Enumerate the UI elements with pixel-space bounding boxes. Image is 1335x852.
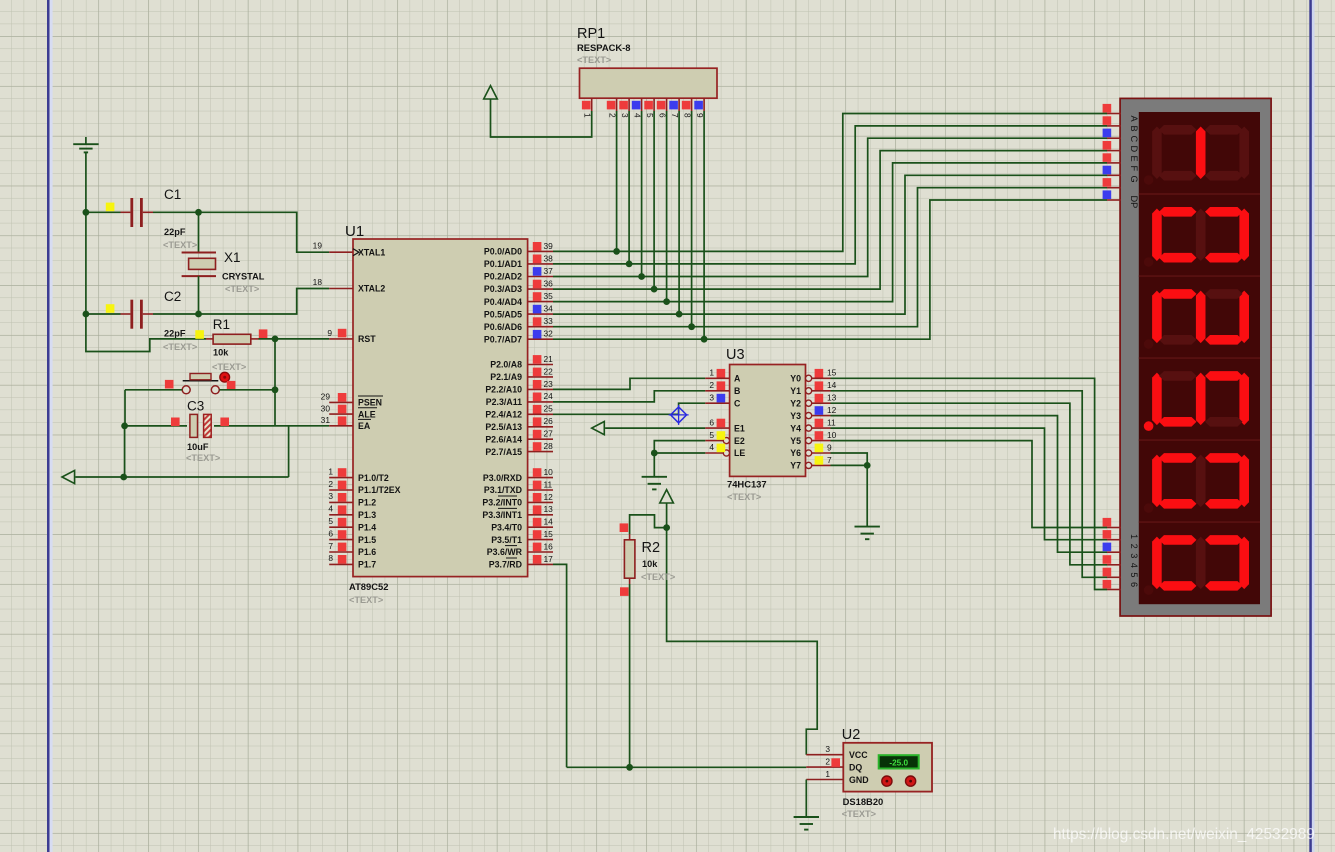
svg-text:2: 2 [328,479,333,489]
svg-text:10k: 10k [213,348,229,358]
svg-text:1: 1 [825,769,830,779]
wire ground to C1 rail [85,152,87,212]
U1 right pin P3.7/RD (pin 17) [528,563,553,565]
svg-text:33: 33 [544,316,554,326]
wire net Y0 to display digit 6 [831,378,1108,589]
svg-text:CRYSTAL: CRYSTAL [222,272,265,282]
svg-text:8: 8 [328,553,333,563]
wire reset button column [274,339,276,426]
U2 indicator lamp 1 [882,776,892,786]
svg-text:P3.2/INT0: P3.2/INT0 [482,498,522,508]
svg-text:Y1: Y1 [790,386,801,396]
U1 right pin P3.0/RXD (pin 10) [528,477,553,479]
U1 left pin P1.4 (pin 5) [329,526,353,528]
indicator square R2 top red [620,523,629,532]
svg-text:Y5: Y5 [790,436,801,446]
U2 pin DQ (2) [806,766,843,768]
svg-text:P1.6: P1.6 [358,547,376,557]
svg-text:10k: 10k [642,559,658,569]
wire net P0.6 / segment G [553,188,1107,327]
svg-text:36: 36 [544,278,554,288]
indicator square C2 yellow [106,304,115,313]
svg-text:P2.6/A14: P2.6/A14 [485,434,522,444]
wire left rail C1-C2 [85,212,87,314]
U1 left pin P1.2 (pin 3) [329,501,353,503]
U1 right pin P3.5/T1 (pin 15) [528,539,553,541]
svg-text:P2.0/A8: P2.0/A8 [490,360,522,370]
wire R2 top jog [630,515,667,534]
U1 right pin P0.3/AD3 (pin 36) [528,288,553,290]
svg-text:14: 14 [827,380,837,390]
node button-right [272,386,279,393]
U1 right pin P2.5/A13 (pin 26) [528,426,553,428]
U1 right pin P2.0/A8 (pin 21) [528,364,553,366]
wire ground rail [75,476,288,478]
svg-text:7: 7 [827,455,832,465]
svg-text:32: 32 [544,329,554,339]
svg-text:R2: R2 [642,540,661,556]
power terminal (RP1 common) [484,86,498,99]
svg-text:4: 4 [709,442,714,452]
indicator square R1 left yellow [195,330,204,339]
svg-text:6: 6 [709,417,714,427]
capacitor C2 [121,313,131,315]
display segment pin B [1107,125,1121,127]
svg-text:15: 15 [827,368,837,378]
indicator square C3 right red [220,418,229,427]
svg-text:<TEXT>: <TEXT> [349,595,383,605]
svg-text:A: A [1129,116,1139,123]
svg-text:P3.5/T1: P3.5/T1 [491,535,522,545]
wire RP1 pin 8 to P0.6 net [691,111,693,327]
svg-text:9: 9 [827,442,832,452]
wire C3 row [125,425,187,427]
display DS1 face [1139,112,1260,604]
display segment pin D [1107,150,1121,152]
wire C2 row [86,313,121,315]
U1 left pin P1.5 (pin 6) [329,539,353,541]
svg-text:P0.0/AD0: P0.0/AD0 [484,247,522,257]
U3 right pin Y6 (pin 9) [806,450,812,456]
U3 right pin Y3 (pin 12) [806,413,812,419]
wire crystal bottom [198,276,200,314]
U1 right pin P3.4/T0 (pin 14) [528,526,553,528]
resistor R2 [629,534,631,540]
svg-text:2: 2 [825,756,830,766]
node marker diamond (P2.4 net) [669,405,689,425]
wire net P0.4 / segment E [553,163,1107,302]
svg-text:DQ: DQ [849,762,862,772]
svg-text:P3.0/RXD: P3.0/RXD [483,473,522,483]
wire down to ground [866,465,868,526]
svg-text:C2: C2 [164,289,181,304]
node X1-top [195,209,202,216]
svg-text:4: 4 [1129,563,1139,568]
svg-text:<TEXT>: <TEXT> [225,284,259,294]
wire net P0.7 / segment DP [553,200,1107,339]
ground (U3 enables) [642,476,667,478]
svg-text:GND: GND [849,775,869,785]
display digit cell 3 (2) [1139,276,1260,349]
svg-text:F: F [1129,166,1139,172]
U3 left pin E2 (pin 5) [705,440,723,442]
display segment pin G [1107,187,1121,189]
wire button left [125,389,182,391]
node C1-left [83,209,90,216]
svg-text:RP1: RP1 [577,26,605,42]
display digit select pin 6 [1107,589,1121,591]
wire net P0.1 / segment B [553,126,1107,264]
U1 right pin P3.1/TXD (pin 11) [528,489,553,491]
svg-text:<TEXT>: <TEXT> [163,342,197,352]
U1 right pin P0.2/AD2 (pin 37) [528,276,553,278]
svg-text:74HC137: 74HC137 [727,479,767,490]
svg-text:P3.3/INT1: P3.3/INT1 [482,510,522,520]
U1 left pin EA [329,425,353,427]
indicator square button-right red [227,381,236,390]
svg-text:22pF: 22pF [164,227,186,237]
display digit select pin 2 [1107,539,1121,541]
svg-text:15: 15 [544,529,554,539]
node RST-R1 [272,336,279,343]
RP1 pin 9 [703,98,705,111]
node X1-bottom [195,311,202,318]
svg-text:EA: EA [358,421,371,431]
svg-text:P2.7/A15: P2.7/A15 [485,447,522,457]
svg-text:P2.4/A12: P2.4/A12 [485,410,522,420]
svg-text:C: C [1129,136,1139,143]
wire net Y3 to display digit 3 [831,416,1108,553]
svg-text:10: 10 [544,467,554,477]
display DS1 bezel [1120,98,1271,616]
wire to U3 ground [653,453,655,476]
ground (Y6/Y7) [855,526,880,528]
svg-text:-25.0: -25.0 [889,758,908,767]
svg-text:1: 1 [1129,534,1139,539]
wire DQ row [567,766,807,768]
ground (U2) [794,816,819,818]
wire P2.2 to U3 A [553,378,705,389]
wire R1 to RST [259,338,330,340]
node C2-left [83,311,90,318]
wire Y6 to ground net [831,453,868,465]
svg-text:22: 22 [544,366,554,376]
resistor pack RP1 body [580,68,718,98]
crystal X1 [182,252,216,254]
svg-text:P1.0/T2: P1.0/T2 [358,473,389,483]
node Y6-Y7 [864,462,871,469]
U1 left pin ALE [329,413,353,415]
U1 right pin P2.3/A11 (pin 24) [528,401,553,403]
svg-text:P2.1/A9: P2.1/A9 [490,372,522,382]
svg-text:U1: U1 [345,223,364,240]
svg-text:P0.7/AD7: P0.7/AD7 [484,334,522,344]
svg-text:5: 5 [709,430,714,440]
svg-text:37: 37 [544,266,554,276]
svg-text:LE: LE [734,448,745,458]
svg-text:11: 11 [827,418,836,428]
wire button right [219,389,275,391]
svg-text:E1: E1 [734,423,745,433]
wire RP1 pin 3 to P0.1 net [628,111,630,264]
svg-text:12: 12 [827,405,837,415]
svg-text:1: 1 [328,466,333,476]
svg-text:3: 3 [328,491,333,501]
U3 right pin Y4 (pin 11) [806,425,812,431]
svg-text:18: 18 [313,277,323,287]
svg-text:Y2: Y2 [790,398,801,408]
wire P3.7/RD to DQ net [553,564,567,767]
U2 pin VCC (3) [806,754,843,756]
svg-text:DP: DP [1129,196,1139,209]
node ground-rail [120,474,127,481]
svg-text:RESPACK-8: RESPACK-8 [577,42,630,53]
svg-text:39: 39 [544,241,554,251]
svg-text:24: 24 [544,391,554,401]
capacitor C1 [121,211,131,213]
ground terminal arrow (left) [62,470,75,483]
svg-text:Y6: Y6 [790,448,801,458]
svg-text:22pF: 22pF [164,329,186,339]
svg-text:23: 23 [544,379,554,389]
node DQ junction [626,764,633,771]
U3 left pin LE (pin 4) [705,452,723,454]
U3 left pin C (pin 3) [705,402,729,404]
svg-text:X1: X1 [224,250,241,265]
U1 left pin P1.6 (pin 7) [329,551,353,553]
wire C3-left column down [124,426,126,477]
U1 right pin P3.6/WR (pin 16) [528,551,553,553]
U2 LCD readout -25.0 [879,755,919,768]
U1 left pin RST [329,338,353,340]
wire RP1 pin 6 to P0.4 net [666,111,668,302]
ic U2 DS18B20 body [843,743,932,792]
svg-text:ALE: ALE [358,409,376,419]
svg-text:9: 9 [327,328,332,338]
svg-text:XTAL2: XTAL2 [358,284,385,294]
RP1 pin 5 [653,98,655,111]
U3 right pin Y7 (pin 7) [806,462,812,468]
display digit cell 2 (0) [1139,194,1260,267]
indicator square C3 left red [171,418,180,427]
svg-text:Y7: Y7 [790,461,801,471]
U1 pin name overlines INT0 INT1 WR RD [498,495,517,497]
svg-text:DS18B20: DS18B20 [843,796,884,807]
wire RP1 pin 7 to P0.5 net [678,111,680,314]
svg-text:13: 13 [544,504,554,514]
svg-text:<TEXT>: <TEXT> [163,240,197,250]
U3 left pin A (pin 1) [705,377,729,379]
svg-text:AT89C52: AT89C52 [349,581,388,592]
svg-text:P0.2/AD2: P0.2/AD2 [484,272,522,282]
wire net P0.5 / segment F [553,175,1107,314]
svg-text:U3: U3 [726,347,745,363]
svg-text:P3.7/RD: P3.7/RD [489,560,522,570]
wire left rail to R1 [86,314,206,352]
svg-text:<TEXT>: <TEXT> [212,362,246,372]
svg-text:21: 21 [544,354,554,364]
wire P2.3 to U3 B [553,391,705,402]
svg-text:31: 31 [321,415,331,425]
svg-text:19: 19 [313,241,323,251]
svg-text:13: 13 [827,393,837,403]
U1 left pin XTAL1 [329,251,353,253]
svg-text:<TEXT>: <TEXT> [842,809,876,819]
display segment pin C [1107,137,1121,139]
U1 left pin P1.1/T2EX (pin 2) [329,489,353,491]
svg-text:<TEXT>: <TEXT> [727,492,761,502]
svg-text:P0.4/AD4: P0.4/AD4 [484,297,522,307]
svg-text:P1.7: P1.7 [358,560,376,570]
U1 right pin P0.4/AD4 (pin 35) [528,301,553,303]
display digit cell 6 (0) [1139,522,1260,595]
svg-text:27: 27 [544,429,554,439]
svg-text:5: 5 [328,516,333,526]
push button [183,380,219,382]
svg-text:PSEN: PSEN [358,398,382,408]
wire C1 row [86,211,121,213]
svg-text:P1.4: P1.4 [358,522,376,532]
svg-text:3: 3 [709,392,714,402]
svg-text:P1.2: P1.2 [358,498,376,508]
svg-text:P3.6/WR: P3.6/WR [487,547,523,557]
U1 left pin XTAL2 [329,288,353,290]
svg-text:P0.3/AD3: P0.3/AD3 [484,284,522,294]
U3 left pin B (pin 2) [705,390,729,392]
display digit select pin 3 [1107,551,1121,553]
svg-text:35: 35 [544,291,554,301]
svg-text:U2: U2 [842,727,861,743]
U2 indicator lamp 2 [906,776,916,786]
U1 right pin P2.1/A9 (pin 22) [528,376,553,378]
svg-text:<TEXT>: <TEXT> [186,453,220,463]
svg-text:P1.3: P1.3 [358,510,376,520]
wire RP1 pin 4 to P0.2 net [641,111,643,277]
svg-text:11: 11 [544,479,553,489]
svg-text:17: 17 [544,554,554,564]
wire net Y4 to display digit 2 [831,428,1108,540]
svg-text:5: 5 [1129,572,1139,577]
svg-text:1: 1 [709,368,714,378]
svg-text:25: 25 [544,404,554,414]
indicator square R1 right red [259,329,268,338]
wire U2 GND to ground [805,780,807,817]
U1 right pin P2.6/A14 (pin 27) [528,438,553,440]
wire C2 row to XTAL2 corner [199,289,330,315]
U1 left pin PSEN [329,401,353,403]
svg-text:B: B [734,386,740,396]
wire RP1 pin1 to power [491,99,592,137]
wire Y7 to ground net [831,464,868,466]
svg-text:B: B [1129,126,1139,132]
svg-text:C3: C3 [187,399,204,414]
svg-text:P1.1/T2EX: P1.1/T2EX [358,485,401,495]
display digit select pin 5 [1107,576,1121,578]
svg-text:2: 2 [1129,544,1139,549]
display digit cell 4 (5.) [1139,358,1260,431]
svg-text:<TEXT>: <TEXT> [577,55,611,65]
svg-text:3: 3 [825,744,830,754]
indicator square R2 bottom red [620,587,629,596]
wire crystal top [198,212,200,252]
U1 left pin P1.3 (pin 4) [329,514,353,516]
ic U3 74HC137 body [730,365,806,477]
U1 left pin P1.7 (pin 8) [329,563,353,565]
svg-text:14: 14 [544,517,554,527]
wire VCC net to U2 VCC [667,503,818,755]
svg-text:A: A [734,374,741,384]
svg-text:VCC: VCC [849,750,868,760]
svg-text:P0.1/AD1: P0.1/AD1 [484,259,522,269]
wire EA column down [288,426,290,477]
wire RP1 pin 5 to P0.3 net [653,111,655,289]
wire RP1 pin 2 to P0.0 net [616,111,618,251]
node E2-LE [651,450,658,457]
svg-text:R1: R1 [213,317,230,332]
svg-text:C1: C1 [164,187,181,202]
ic U1 AT89C52 body [353,239,528,577]
U2 pin GND (1) [806,779,843,781]
U1 left pin P1.0/T2 (pin 1) [329,477,353,479]
indicator square button-left red [165,380,174,389]
indicator square C1 yellow [106,203,115,212]
svg-text:https://blog.csdn.net/weixin_4: https://blog.csdn.net/weixin_42532989 [1053,826,1315,843]
svg-text:P0.5/AD5: P0.5/AD5 [484,309,522,319]
svg-text:2: 2 [709,380,714,390]
U1 right pin P0.1/AD1 (pin 38) [528,263,553,265]
wire net P0.0 / segment A [553,114,1107,252]
U3 right pin Y1 (pin 14) [806,388,812,394]
wire net P0.3 / segment D [553,151,1107,290]
wire net Y5 to display digit 1 [831,441,1108,528]
svg-text:D: D [1129,146,1139,153]
svg-text:E: E [1129,156,1139,162]
display segment pin F [1107,174,1121,176]
U1 right pin P3.2/INT0 (pin 12) [528,501,553,503]
svg-text:C: C [734,398,741,408]
U3 right pin Y2 (pin 13) [806,400,812,406]
U1 right pin P2.4/A12 (pin 25) [528,413,553,415]
svg-text:P0.6/AD6: P0.6/AD6 [484,322,522,332]
svg-text:Y3: Y3 [790,411,801,421]
wire E2 to LE junction [654,441,705,453]
wire terminal to U3 E1 [605,427,705,429]
wire net P0.2 / segment C [553,138,1107,276]
svg-text:10uF: 10uF [187,442,209,452]
RP1 pin 7 [678,98,680,111]
U1 right pin P2.2/A10 (pin 23) [528,388,553,390]
display segment pin E [1107,162,1121,164]
U3 right pin Y0 (pin 15) [806,375,812,381]
svg-text:26: 26 [544,416,554,426]
resistor R1 [206,338,213,340]
U1 right pin P3.3/INT1 (pin 13) [528,514,553,516]
wire P2.4 to U3 C [553,403,705,414]
svg-text:34: 34 [544,304,554,314]
svg-text:4: 4 [328,504,333,514]
svg-text:P2.2/A10: P2.2/A10 [485,385,522,395]
wire LE row [654,452,705,454]
ground (top-left) [85,137,87,144]
svg-text:P1.5: P1.5 [358,535,376,545]
display segment pin A [1107,113,1121,115]
display digit cell 5 (0) [1139,440,1260,513]
svg-text:6: 6 [1129,582,1139,587]
wire RP1 pin 9 to P0.7 net [703,111,705,339]
wire net Y1 to display digit 5 [831,391,1108,578]
U1 right pin P2.7/A15 (pin 28) [528,451,553,453]
U1 right pin P0.6/AD6 (pin 33) [528,326,553,328]
